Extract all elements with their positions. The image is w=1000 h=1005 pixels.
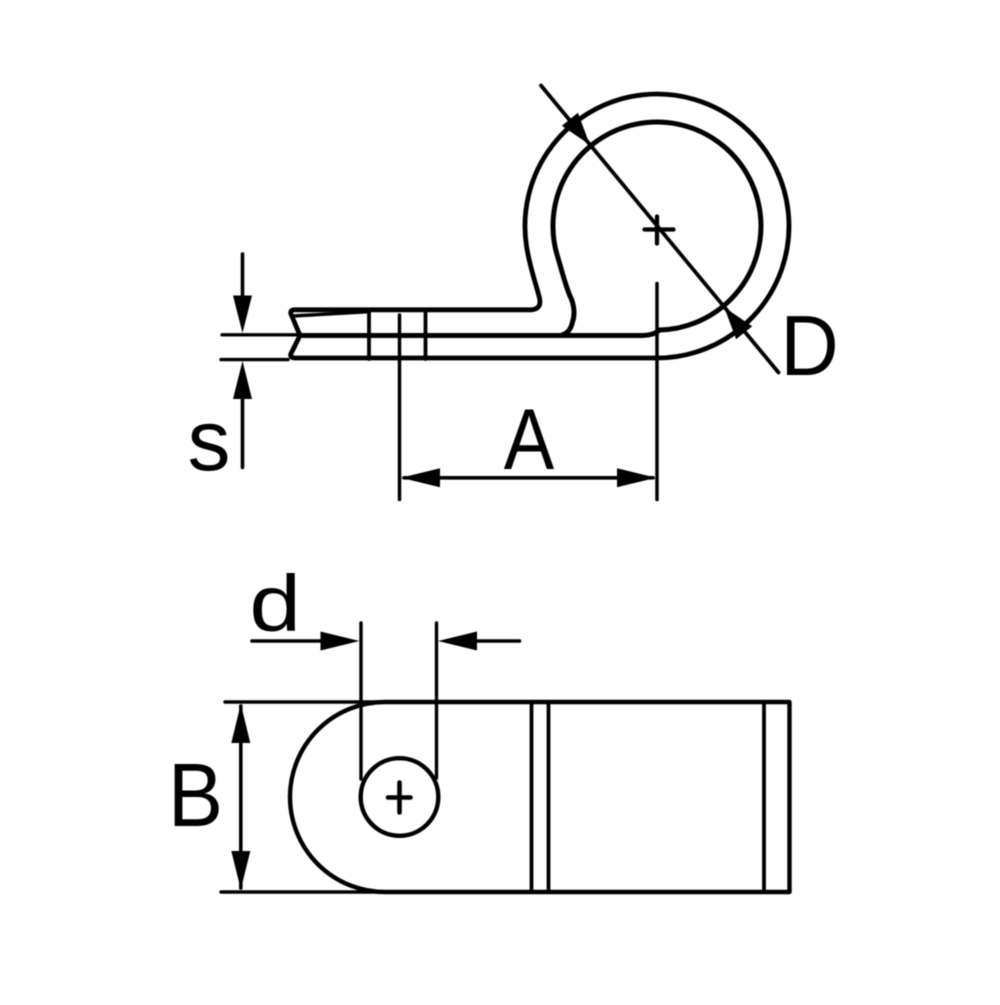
bottom view: hole cross bbox=[388, 783, 411, 813]
top view: loop centerline / A right extension bbox=[655, 284, 659, 500]
svg-text:s: s bbox=[188, 393, 231, 489]
top view: loop center cross bbox=[645, 217, 674, 244]
bottom view: bend line 2 bbox=[547, 702, 551, 892]
dimension D: diagonal line bbox=[541, 86, 779, 373]
dimension d: right extension line bbox=[435, 623, 438, 778]
dimension d: left extension line bbox=[359, 623, 362, 779]
top view: hole centerline / A left extension bbox=[398, 315, 402, 500]
dimension s: lower arrow bbox=[233, 361, 252, 399]
dimension B: top extension line bbox=[225, 700, 384, 703]
bottom view: bend line 3 (right) bbox=[762, 702, 766, 892]
bottom view: screw hole bbox=[361, 758, 439, 836]
svg-text:D: D bbox=[780, 298, 838, 393]
dimension A: dimension line bbox=[404, 476, 653, 480]
dimension B: bottom extension line bbox=[221, 890, 386, 893]
top view: hole edge line left bbox=[367, 310, 371, 359]
dimension s: upper extension line bbox=[222, 333, 297, 336]
top view: upper tab wedge line bbox=[293, 312, 367, 316]
top view: hole edge line right bbox=[424, 310, 428, 359]
dimension d: left line and arrowhead bbox=[252, 639, 324, 643]
dimension s: lower extension line bbox=[221, 358, 288, 361]
dimension A: left arrowhead bbox=[401, 468, 440, 487]
svg-text:d: d bbox=[249, 560, 301, 649]
dimension s: upper arrow bbox=[241, 254, 245, 298]
dimension D: upper arrowhead bbox=[562, 113, 590, 145]
bottom view: bend line 1 bbox=[530, 702, 534, 892]
dimension A: right arrowhead bbox=[617, 468, 656, 487]
dimension D: lower arrowhead bbox=[724, 307, 752, 339]
top view: clip body outer outline bbox=[291, 94, 789, 358]
svg-text:A: A bbox=[504, 393, 554, 489]
dimension d: right line and arrowhead bbox=[477, 639, 520, 643]
dimension B: vertical line with arrows bbox=[239, 706, 243, 888]
bottom view: clip plan outline bbox=[290, 702, 790, 892]
top view: inner band line (middle line + inner circle of loop) bbox=[302, 122, 761, 335]
svg-text:B: B bbox=[168, 746, 223, 846]
